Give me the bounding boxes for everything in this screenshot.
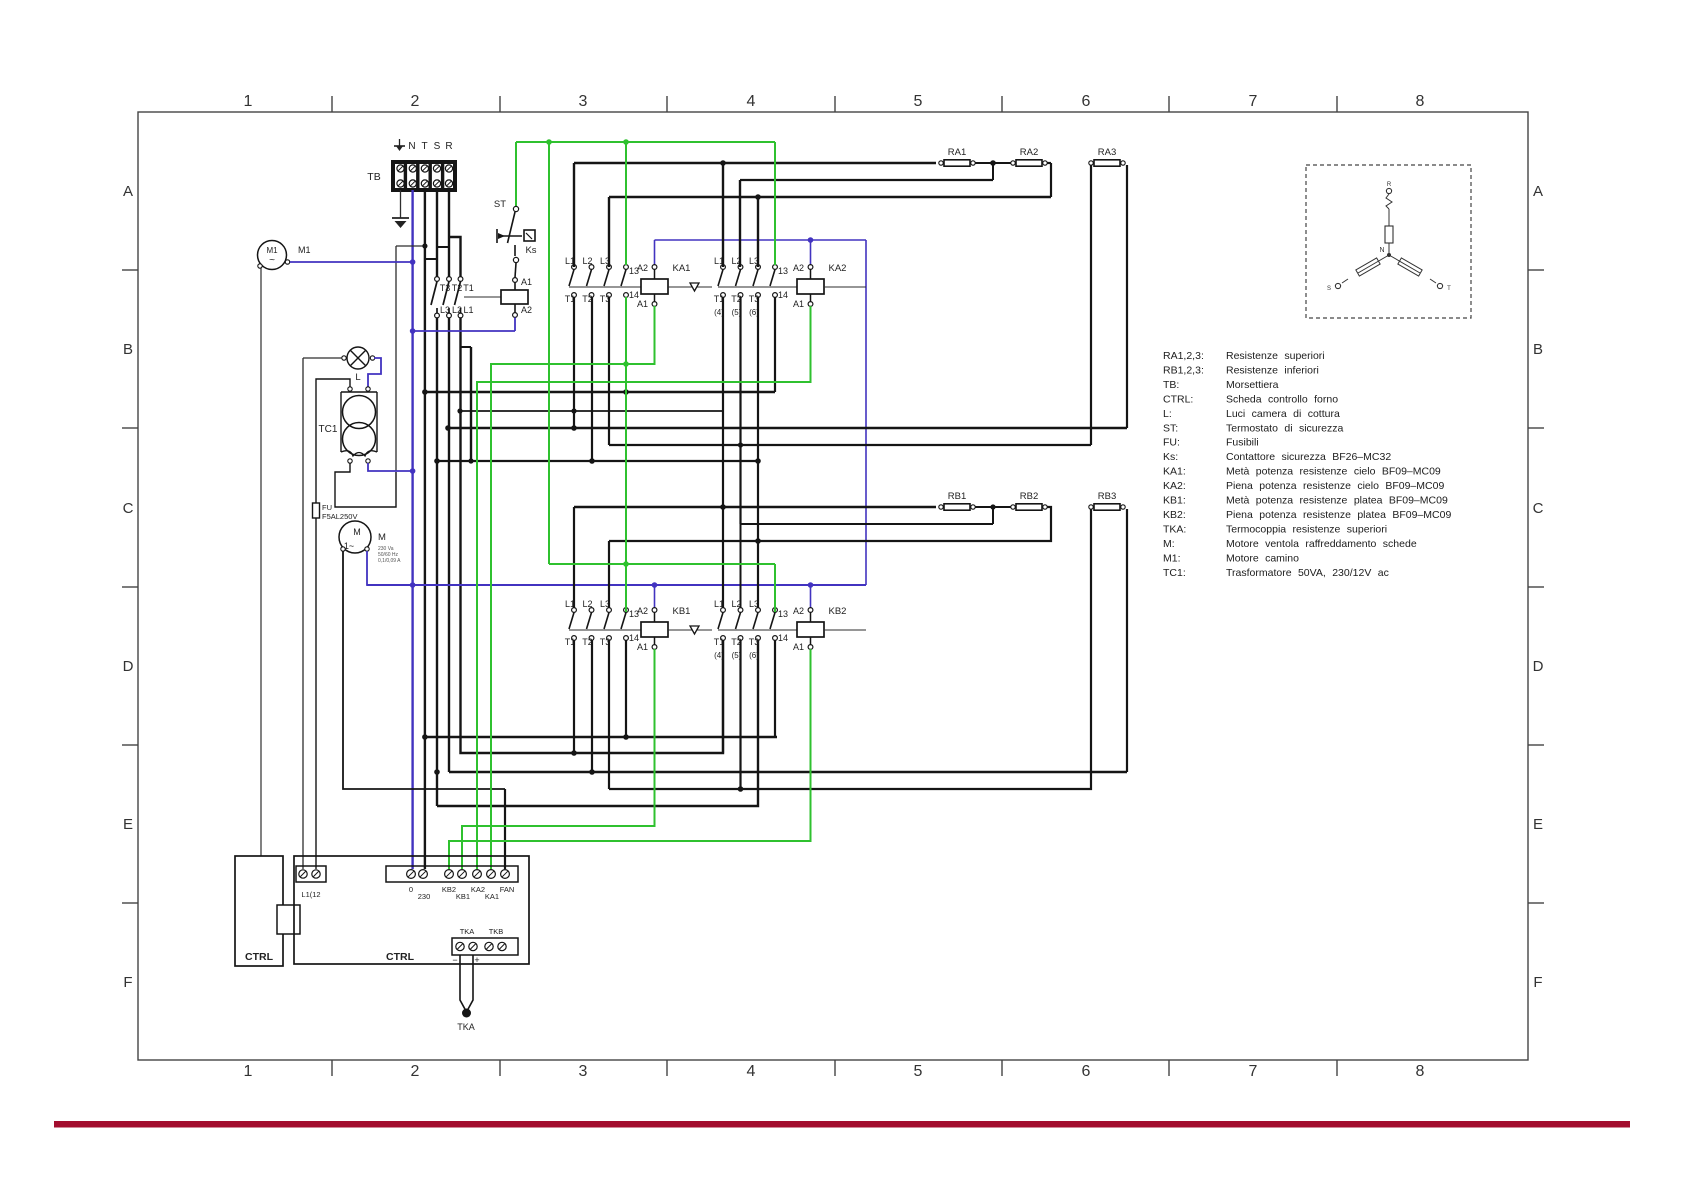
- svg-text:M:: M:: [1163, 538, 1175, 550]
- svg-text:TKA: TKA: [460, 927, 475, 936]
- svg-text:6: 6: [1082, 1063, 1091, 1080]
- svg-text:T1: T1: [463, 283, 474, 293]
- svg-text:L2: L2: [582, 256, 592, 266]
- svg-text:230: 230: [418, 892, 431, 901]
- svg-text:A2: A2: [637, 606, 648, 616]
- svg-text:CTRL: CTRL: [386, 951, 415, 963]
- svg-text:F5AL250V: F5AL250V: [322, 512, 357, 521]
- svg-text:(6): (6): [749, 651, 759, 660]
- svg-text:Resistenze inferiori: Resistenze inferiori: [1226, 364, 1319, 376]
- svg-text:RA1,2,3:: RA1,2,3:: [1163, 350, 1204, 362]
- svg-text:T: T: [1447, 286, 1451, 292]
- svg-text:RB3: RB3: [1098, 491, 1116, 502]
- svg-text:Resistenze superiori: Resistenze superiori: [1226, 350, 1325, 362]
- svg-text:RB1,2,3:: RB1,2,3:: [1163, 364, 1204, 376]
- svg-text:R: R: [1387, 182, 1392, 188]
- svg-text:1: 1: [244, 1063, 253, 1080]
- svg-text:FU: FU: [322, 503, 332, 512]
- svg-text:Metà potenza resistenze platea: Metà potenza resistenze platea BF09–MC09: [1226, 495, 1448, 507]
- svg-text:TKA: TKA: [457, 1022, 475, 1032]
- svg-text:A2: A2: [521, 305, 532, 315]
- svg-text:3: 3: [579, 1063, 588, 1080]
- svg-text:RA3: RA3: [1098, 147, 1116, 158]
- svg-text:N: N: [408, 141, 415, 152]
- svg-text:Scheda controllo forno: Scheda controllo forno: [1226, 393, 1338, 405]
- svg-text:A2: A2: [793, 263, 804, 273]
- svg-text:T2: T2: [452, 283, 463, 293]
- svg-text:KB2: KB2: [829, 606, 847, 617]
- svg-text:3: 3: [579, 93, 588, 110]
- svg-text:KB2: KB2: [442, 885, 456, 894]
- svg-text:M1:: M1:: [1163, 552, 1181, 564]
- svg-text:8: 8: [1416, 93, 1425, 110]
- svg-text:13: 13: [778, 609, 788, 619]
- svg-text:RA1: RA1: [948, 147, 966, 158]
- svg-text:B: B: [1533, 341, 1543, 358]
- svg-text:Ks:: Ks:: [1163, 451, 1178, 463]
- svg-text:TB: TB: [367, 171, 380, 183]
- svg-text:F: F: [123, 974, 132, 991]
- svg-text:A1: A1: [521, 277, 532, 287]
- svg-text:N: N: [1379, 247, 1384, 254]
- svg-text:Metà potenza resistenze cielo: Metà potenza resistenze cielo BF09–MC09: [1226, 466, 1441, 478]
- svg-text:S: S: [1327, 286, 1331, 292]
- svg-text:A: A: [1533, 183, 1543, 200]
- svg-text:T3: T3: [749, 637, 760, 647]
- svg-text:Morsettiera: Morsettiera: [1226, 379, 1279, 391]
- svg-text:2: 2: [411, 93, 420, 110]
- svg-text:14: 14: [778, 633, 788, 643]
- svg-text:Contattore sicurezza BF26–MC32: Contattore sicurezza BF26–MC32: [1226, 451, 1391, 463]
- svg-text:A1: A1: [793, 299, 804, 309]
- svg-text:RB2: RB2: [1020, 491, 1038, 502]
- svg-text:13: 13: [778, 266, 788, 276]
- svg-text:RA2: RA2: [1020, 147, 1038, 158]
- svg-text:5: 5: [914, 93, 923, 110]
- svg-text:D: D: [1533, 658, 1544, 675]
- svg-text:1: 1: [244, 93, 253, 110]
- svg-text:KA1:: KA1:: [1163, 466, 1186, 478]
- svg-text:Piena potenza resistenze plate: Piena potenza resistenze platea BF09–MC0…: [1226, 509, 1451, 521]
- svg-text:FU:: FU:: [1163, 437, 1180, 449]
- svg-text:KA2: KA2: [471, 885, 485, 894]
- svg-text:CTRL:: CTRL:: [1163, 393, 1193, 405]
- svg-text:8: 8: [1416, 1063, 1425, 1080]
- svg-text:C: C: [123, 500, 134, 517]
- svg-text:A2: A2: [637, 263, 648, 273]
- svg-text:4: 4: [747, 93, 756, 110]
- svg-text:D: D: [123, 658, 134, 675]
- svg-text:M: M: [353, 527, 361, 537]
- svg-text:KA2:: KA2:: [1163, 480, 1186, 492]
- svg-text:L1: L1: [463, 305, 473, 315]
- svg-text:A2: A2: [793, 606, 804, 616]
- svg-text:FAN: FAN: [500, 885, 515, 894]
- svg-text:B: B: [123, 341, 133, 358]
- svg-text:KB2:: KB2:: [1163, 509, 1186, 521]
- svg-text:E: E: [123, 816, 133, 833]
- svg-text:M: M: [378, 532, 386, 543]
- svg-text:ST: ST: [494, 199, 506, 210]
- svg-text:A: A: [123, 183, 133, 200]
- svg-text:Motore ventola raffreddamento: Motore ventola raffreddamento schede: [1226, 538, 1417, 550]
- svg-text:R: R: [445, 141, 452, 152]
- svg-text:TB:: TB:: [1163, 379, 1179, 391]
- svg-text:Fusibili: Fusibili: [1226, 437, 1259, 449]
- svg-text:14: 14: [778, 290, 788, 300]
- svg-text:A1: A1: [793, 642, 804, 652]
- svg-text:Ks: Ks: [525, 245, 536, 256]
- svg-text:T: T: [421, 141, 427, 152]
- svg-text:Termostato di sicurezza: Termostato di sicurezza: [1226, 422, 1343, 434]
- svg-text:TKA:: TKA:: [1163, 523, 1186, 535]
- svg-text:0,1/0,09 A: 0,1/0,09 A: [378, 558, 401, 564]
- svg-text:A1: A1: [637, 299, 648, 309]
- svg-text:6: 6: [1082, 93, 1091, 110]
- svg-text:M1: M1: [298, 245, 311, 255]
- svg-text:ST:: ST:: [1163, 422, 1178, 434]
- svg-text:KB1:: KB1:: [1163, 495, 1186, 507]
- svg-text:L2: L2: [582, 599, 592, 609]
- svg-text:Piena potenza resistenze cielo: Piena potenza resistenze cielo BF09–MC09: [1226, 480, 1444, 492]
- svg-text:7: 7: [1249, 93, 1258, 110]
- svg-text:2: 2: [411, 1063, 420, 1080]
- svg-text:TC1: TC1: [319, 424, 338, 435]
- svg-text:KA1: KA1: [673, 263, 691, 274]
- svg-text:Motore camino: Motore camino: [1226, 552, 1299, 564]
- svg-text:L1(12: L1(12: [301, 890, 320, 899]
- svg-text:0: 0: [409, 885, 413, 894]
- svg-text:C: C: [1533, 500, 1544, 517]
- svg-text:S: S: [434, 141, 441, 152]
- svg-text:−: −: [452, 955, 457, 965]
- svg-text:TKB: TKB: [489, 927, 504, 936]
- svg-text:+: +: [474, 955, 479, 965]
- svg-text:L: L: [355, 372, 360, 383]
- svg-text:A1: A1: [637, 642, 648, 652]
- svg-text:M1: M1: [266, 246, 278, 255]
- svg-text:Luci camera di cottura: Luci camera di cottura: [1226, 408, 1340, 420]
- svg-text:CTRL: CTRL: [245, 951, 274, 963]
- svg-text:KA1: KA1: [485, 892, 499, 901]
- svg-text:7: 7: [1249, 1063, 1258, 1080]
- svg-text:L:: L:: [1163, 408, 1172, 420]
- svg-text:KB1: KB1: [456, 892, 470, 901]
- svg-text:KB1: KB1: [673, 606, 691, 617]
- svg-text:RB1: RB1: [948, 491, 966, 502]
- svg-text:F: F: [1533, 974, 1542, 991]
- svg-text:4: 4: [747, 1063, 756, 1080]
- svg-text:5: 5: [914, 1063, 923, 1080]
- svg-text:TC1:: TC1:: [1163, 567, 1186, 579]
- svg-text:KA2: KA2: [829, 263, 847, 274]
- svg-text:Termocoppia resistenze superio: Termocoppia resistenze superiori: [1226, 523, 1387, 535]
- svg-text:~: ~: [269, 255, 275, 266]
- svg-text:Trasformatore 50VA, 230/12V ac: Trasformatore 50VA, 230/12V ac: [1226, 567, 1389, 579]
- svg-text:E: E: [1533, 816, 1543, 833]
